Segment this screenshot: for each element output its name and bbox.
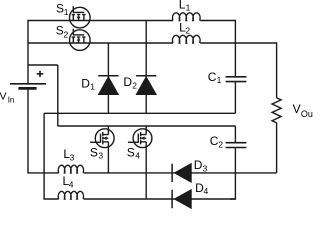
- resistor R load: [272, 98, 281, 123]
- svg-text:V: V: [293, 102, 301, 116]
- inductor L4: [58, 191, 83, 199]
- wire S3 source down to L3 line: [107, 148, 109, 173]
- svg-text:2: 2: [218, 140, 223, 150]
- wire rail1 top: Vin+ corner through S1 to L1 to C1 corner: [28, 20, 235, 22]
- label V_In: [0, 91, 14, 105]
- wire S4 drain stub: [145, 126, 147, 130]
- label C2: [210, 134, 224, 150]
- label L2: [179, 20, 190, 35]
- label D2: [123, 75, 137, 91]
- label D3: [194, 158, 208, 174]
- wire battery- down to L3 line: [28, 89, 59, 173]
- wire rail2: Vin+ bus through S2 to L2 to Vout corner: [28, 42, 277, 44]
- label L1: [179, 0, 191, 12]
- diode D4: [172, 190, 191, 209]
- label V_Out: [293, 102, 316, 119]
- inductor L2: [173, 35, 201, 43]
- label D4: [195, 181, 208, 196]
- label S4: [127, 145, 141, 160]
- label S2: [56, 24, 69, 40]
- capacitor C2: [226, 143, 247, 148]
- label L3: [63, 147, 74, 163]
- wire load bottom to L3 line: [276, 123, 278, 173]
- svg-text:1: 1: [90, 82, 95, 92]
- wire battery+ branch over to line B feeder: [28, 65, 58, 126]
- svg-text:D: D: [81, 76, 90, 90]
- wire line A left drop down to L4 line: [44, 113, 59, 199]
- label L4: [63, 174, 74, 190]
- switch S2 (MOSFET): [70, 29, 91, 51]
- switch S1 (MOSFET): [70, 6, 91, 28]
- svg-text:In: In: [8, 96, 15, 105]
- wire Vout right drop: rail2 corner down to load resistor: [276, 42, 278, 98]
- wire S3 drain stub: [107, 126, 109, 130]
- diode D3: [172, 164, 191, 183]
- svg-text:V: V: [0, 91, 7, 103]
- svg-text:D: D: [123, 75, 132, 89]
- capacitor C1: [226, 77, 247, 82]
- wire D2 branch: rail1 down through D2 to line A: [145, 21, 147, 114]
- wire line B right corner down to C2 top: [234, 126, 236, 142]
- svg-text:S: S: [127, 145, 135, 159]
- svg-text:Out: Out: [301, 109, 313, 119]
- wire C1 bottom to line A: [234, 82, 236, 113]
- svg-text:3: 3: [70, 153, 75, 163]
- svg-text:3: 3: [98, 151, 103, 161]
- svg-text:4: 4: [135, 151, 140, 161]
- switch S3 (MOSFET): [90, 129, 114, 148]
- svg-text:2: 2: [132, 81, 137, 91]
- inductor L1: [173, 13, 201, 21]
- label S3: [90, 145, 104, 160]
- svg-text:S: S: [56, 24, 64, 38]
- diode D2: [136, 76, 156, 95]
- svg-text:2: 2: [185, 25, 190, 35]
- battery V_In: [10, 84, 46, 89]
- wire S4 source down to L4 line: [145, 148, 147, 199]
- wire line A: D1/D2 cathodes to C1 bottom: [44, 112, 235, 114]
- svg-text:1: 1: [64, 7, 69, 17]
- svg-text:4: 4: [204, 186, 209, 196]
- wire L4 line: line-A drop through L4 to D4 to C2 corner: [84, 198, 236, 200]
- label D1: [81, 76, 95, 91]
- label C1: [208, 70, 222, 85]
- wire left bus Vin+ : rail1 corner down to battery top: [27, 20, 29, 83]
- switch S4 (MOSFET): [128, 129, 152, 148]
- wire rail1 right corner down to C1 top: [234, 20, 236, 76]
- label S1: [56, 2, 69, 18]
- label + (battery positive): [37, 71, 43, 77]
- wire C2 bottom down to L4 line corner: [230, 148, 235, 200]
- wire D1 branch: rail2 down through D1 to line A: [107, 43, 109, 113]
- svg-text:3: 3: [203, 164, 208, 174]
- svg-text:4: 4: [69, 180, 74, 190]
- wire line B: battery feeder to S3/S4 drains to C2 top: [58, 125, 236, 127]
- svg-text:S: S: [90, 145, 98, 159]
- diode D1: [98, 76, 118, 95]
- svg-text:D: D: [194, 158, 203, 172]
- wire L3 line: battery- through L3 to D3 to Vout bottom: [84, 172, 277, 174]
- svg-text:1: 1: [217, 75, 222, 85]
- svg-text:C: C: [208, 70, 217, 84]
- inductor L3: [58, 165, 83, 173]
- svg-text:1: 1: [186, 2, 191, 12]
- svg-text:2: 2: [64, 29, 69, 39]
